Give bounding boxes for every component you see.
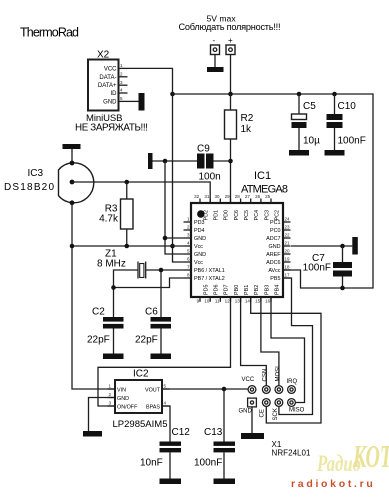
svg-text:PC3: PC3 [264, 210, 270, 221]
regulator IC2 LP2985AIM5 [108, 369, 170, 431]
svg-text:PB2: PB2 [254, 285, 260, 295]
svg-text:radiokot.ru: radiokot.ru [291, 478, 376, 490]
wire X2 GND to ground bar [128, 100, 139, 102]
resistor R2 1k [225, 94, 254, 139]
IC1 bottom pin stubs [200, 297, 271, 302]
svg-text:PB5: PB5 [270, 276, 280, 282]
capacitor C7 100nF [303, 246, 352, 288]
svg-text:15: 15 [255, 299, 261, 304]
svg-text:IC1: IC1 [254, 170, 271, 182]
svg-text:4.7k: 4.7k [99, 214, 119, 225]
ground bar left of C9 [148, 153, 153, 169]
svg-text:26: 26 [255, 194, 261, 199]
wire X2 VCC to bus and down to Vcc pins [128, 68, 184, 262]
node R3 top junction [124, 180, 129, 185]
svg-text:CE: CE [259, 409, 265, 417]
svg-text:C12: C12 [172, 427, 191, 438]
wire gnd net down to pin3 and pin5 [165, 161, 184, 254]
svg-text:22pF: 22pF [87, 335, 110, 346]
svg-text:25: 25 [265, 194, 271, 199]
wire minus to ground [214, 55, 216, 68]
svg-text:27: 27 [245, 194, 251, 199]
svg-text:PD6: PD6 [214, 285, 220, 296]
ground bar C13 [214, 479, 236, 485]
IC1 left pin numbers 1-8 [187, 217, 190, 278]
terminal minus [211, 36, 220, 55]
svg-text:VOUT: VOUT [145, 388, 161, 394]
wire PB1 to CSN [241, 297, 267, 386]
IC1 right pin stubs [283, 222, 291, 278]
svg-text:R2: R2 [241, 113, 254, 124]
wire C9 right to reset node [214, 160, 231, 162]
ground bar C12 [160, 479, 182, 485]
svg-text:GND: GND [194, 236, 206, 242]
capacitor C9 100n [197, 144, 221, 183]
svg-text:C13: C13 [204, 427, 223, 438]
svg-text:Соблюдать полярность!!!: Соблюдать полярность!!! [179, 22, 281, 32]
svg-text:GND: GND [239, 409, 253, 415]
svg-text:21: 21 [285, 241, 291, 246]
svg-text:PB0: PB0 [234, 285, 240, 295]
IC1 bottom pin labels rotated [203, 285, 280, 296]
IC1 left pin stubs [184, 222, 192, 278]
svg-text:17: 17 [285, 273, 291, 278]
X1 pad labels [239, 366, 305, 421]
node C7 bottom junction on AVcc rail [340, 286, 345, 291]
svg-text:PC2: PC2 [274, 210, 280, 221]
wire PB5 to SCK [279, 278, 313, 415]
svg-text:PC1: PC1 [270, 220, 281, 226]
svg-text:100nF: 100nF [338, 136, 366, 147]
svg-text:12: 12 [225, 299, 231, 304]
svg-text:PC5: PC5 [244, 210, 250, 221]
svg-text:18: 18 [285, 265, 291, 270]
capacitor C13 100nF [194, 389, 235, 479]
svg-text:NRF24L01: NRF24L01 [272, 449, 312, 458]
svg-text:PC6: PC6 [234, 210, 240, 221]
svg-text:PB6 / XTAL1: PB6 / XTAL1 [194, 268, 225, 274]
ground bar C6 [151, 354, 172, 360]
svg-text:DATA+: DATA+ [98, 83, 117, 89]
svg-text:PB7 / XTAL2: PB7 / XTAL2 [194, 276, 225, 282]
svg-text:PD1: PD1 [214, 210, 220, 221]
svg-text:11: 11 [215, 299, 220, 304]
svg-text:14: 14 [245, 299, 251, 304]
capacitor C12 10nF [140, 427, 190, 479]
svg-text:19: 19 [285, 257, 291, 262]
svg-text:20: 20 [285, 249, 291, 254]
IC1 right pin labels [266, 220, 281, 282]
svg-text:MISO: MISO [289, 408, 305, 414]
svg-text:CSN: CSN [263, 369, 269, 382]
crystal Z1 8 MHz [97, 249, 146, 279]
svg-text:PC0: PC0 [270, 228, 281, 234]
svg-text:100nF: 100nF [194, 458, 222, 469]
wire PB0 to LDO ON-OFF [98, 297, 231, 406]
node vcc pin4 cross junction [170, 244, 175, 249]
node xtal1 junction [159, 268, 164, 273]
ground bar X2 [139, 93, 145, 111]
svg-text:PB3: PB3 [264, 285, 270, 295]
connector X1 NRF24L01 pads [248, 386, 296, 407]
ground bar right of pin21 [352, 237, 358, 255]
svg-text:PB4: PB4 [274, 285, 280, 295]
IC1 right pin numbers 24-17 [285, 217, 291, 278]
svg-text:ID: ID [111, 91, 118, 97]
watermark Radio KOT [291, 438, 389, 490]
wire DQ data line to IC1 pin31 [72, 182, 210, 203]
svg-text:GND: GND [117, 396, 129, 402]
svg-text:AREF: AREF [266, 252, 281, 258]
svg-text:VCC: VCC [242, 377, 255, 383]
IC1 top pin numbers 32-25 [194, 194, 271, 199]
note 5V max polarity [179, 14, 281, 33]
svg-text:VCC: VCC [104, 66, 117, 72]
IC1 bottom pin numbers 9-16 [197, 299, 271, 304]
node VCC row junctions [70, 244, 129, 249]
svg-text:PC4: PC4 [254, 210, 260, 221]
node VOUT C13 junction [222, 387, 227, 392]
terminal plus [226, 36, 235, 55]
capacitor C10 100nF [327, 94, 366, 150]
svg-text:Vcc: Vcc [194, 244, 203, 250]
wire PB3 to MOSI [261, 297, 279, 386]
svg-text:100nF: 100nF [303, 263, 331, 274]
wire PB4 to MISO [271, 297, 305, 403]
svg-text:-: - [213, 36, 216, 45]
svg-text:НЕ ЗАРЯЖАТЬ!!!: НЕ ЗАРЯЖАТЬ!!! [75, 123, 148, 134]
node xtal2 junction [111, 285, 116, 290]
svg-text:C6: C6 [145, 307, 158, 318]
svg-text:IC3: IC3 [27, 168, 43, 179]
svg-text:GND: GND [194, 252, 206, 258]
svg-text:10: 10 [204, 299, 210, 304]
wire XTAL1 net crystal right to pin7 and C6 [146, 270, 184, 317]
op-amp-region labels IC1 ATMEGA8 [241, 170, 288, 196]
node C9 gnd junction [163, 159, 168, 164]
ground bar under minus terminal [207, 67, 224, 72]
connector X2 MiniUSB [88, 50, 128, 111]
svg-text:Vcc: Vcc [194, 260, 203, 266]
svg-text:ADC6: ADC6 [266, 260, 280, 266]
svg-text:+: + [228, 36, 233, 45]
ground bar IC2 [83, 431, 102, 437]
svg-text:32: 32 [194, 194, 200, 199]
svg-text:22: 22 [285, 233, 291, 238]
svg-text:BPAS: BPAS [146, 405, 160, 411]
svg-text:PD5: PD5 [203, 285, 209, 296]
IC1 top pin stubs [200, 199, 271, 204]
svg-text:AVcc: AVcc [268, 268, 280, 274]
svg-text:PD3: PD3 [194, 220, 205, 226]
svg-text:8 MHz: 8 MHz [97, 259, 126, 270]
wire VCC horizontal row to pin4 [72, 245, 184, 247]
wire R2 bottom to reset column [230, 139, 232, 203]
wire BPAS to C12 [162, 406, 170, 442]
IC1 left pin labels [194, 220, 225, 282]
ground bar C10 [325, 150, 345, 156]
wire PB2 to CE [251, 297, 321, 423]
node C7 top junction [340, 244, 345, 249]
label X1 NRF24L01 [272, 440, 312, 458]
svg-text:13: 13 [235, 299, 241, 304]
svg-text:10nF: 10nF [140, 458, 163, 469]
svg-text:VIN: VIN [117, 388, 126, 394]
svg-text:23: 23 [285, 225, 291, 230]
sensor IC3 DS18B20 [4, 144, 94, 205]
wire VOUT 3V3 rail to X1 VCC [162, 388, 248, 390]
svg-text:1k: 1k [241, 124, 253, 135]
svg-text:ThermoRad: ThermoRad [20, 26, 79, 40]
svg-text:SCK: SCK [273, 408, 279, 420]
ground bar X1 [241, 433, 264, 439]
svg-text:PD4: PD4 [194, 228, 205, 234]
svg-text:IC2: IC2 [133, 369, 149, 380]
svg-text:LP2985AIM5: LP2985AIM5 [113, 419, 168, 430]
wire VCC net IC3 down to IC2 VIN [72, 203, 115, 389]
svg-text:C2: C2 [92, 307, 105, 318]
wire IC2 GND to ground bar [89, 398, 116, 432]
svg-text:10µ: 10µ [303, 136, 320, 147]
wire X1 GND square to ground bar [251, 407, 253, 433]
svg-text:GND: GND [269, 244, 281, 250]
capacitor C5 10u electrolytic [292, 94, 321, 150]
svg-text:GND: GND [103, 99, 117, 105]
wire plus down to 5V bus [230, 55, 232, 95]
svg-text:100n: 100n [199, 172, 221, 183]
IC1 top pin labels rotated [203, 210, 280, 221]
svg-text:28: 28 [235, 194, 241, 199]
wire 5V bus top and right side down to AVcc row [173, 94, 374, 288]
title ThermoRad [20, 26, 79, 40]
svg-text:ADC7: ADC7 [266, 236, 280, 242]
svg-text:PD2: PD2 [203, 210, 209, 221]
svg-text:31: 31 [204, 194, 210, 199]
svg-text:ON/OFF: ON/OFF [117, 405, 138, 411]
wire C9 left to ground bar [153, 160, 198, 162]
svg-text:IRQ: IRQ [287, 379, 298, 385]
ground bar C2 [103, 354, 124, 360]
svg-text:24: 24 [285, 217, 291, 222]
wire pin21 GND to right ground bar [291, 245, 352, 247]
svg-text:PD7: PD7 [224, 285, 230, 296]
wire XTAL2 net crystal left to pin8 and C2 [114, 270, 184, 317]
svg-text:КОТ: КОТ [352, 438, 389, 474]
node reset junction [228, 159, 233, 164]
svg-text:PD0: PD0 [224, 210, 230, 221]
svg-text:DS18B20: DS18B20 [4, 182, 54, 193]
resistor R3 4.7k [99, 182, 133, 246]
capacitor C2 22pF [87, 307, 124, 354]
node bus junction dots [170, 92, 337, 97]
svg-text:C9: C9 [197, 144, 210, 155]
label MiniUSB warning [75, 113, 148, 134]
IC U1 ATMEGA8 body [191, 203, 283, 297]
svg-text:PB1: PB1 [244, 285, 250, 295]
capacitor C6 22pF [135, 307, 171, 354]
svg-text:MOSI: MOSI [275, 366, 281, 382]
ground bar C5 [289, 150, 309, 156]
svg-text:16: 16 [265, 299, 271, 304]
svg-text:30: 30 [214, 194, 220, 199]
svg-text:C5: C5 [303, 101, 316, 112]
svg-text:DATA-: DATA- [99, 75, 116, 81]
svg-text:C10: C10 [338, 101, 357, 112]
node gnd pin3 junction [163, 236, 168, 241]
svg-text:29: 29 [225, 194, 231, 199]
svg-text:22pF: 22pF [135, 335, 158, 346]
